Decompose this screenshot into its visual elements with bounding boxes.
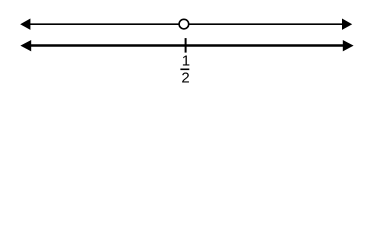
node top line right arrowhead bbox=[342, 19, 352, 30]
svg-text:1: 1 bbox=[182, 53, 190, 70]
node bottom line right arrowhead bbox=[343, 40, 354, 51]
wire bottom number line shaft bbox=[28, 44, 345, 46]
wire top number line shaft bbox=[28, 23, 344, 25]
node tick mark at one half bbox=[185, 38, 187, 53]
node bottom line left arrowhead bbox=[20, 40, 31, 51]
node open circle point on top line bbox=[179, 19, 189, 29]
node top line left arrowhead bbox=[20, 19, 30, 30]
node fraction bar bbox=[180, 68, 189, 70]
svg-text:2: 2 bbox=[181, 70, 189, 87]
